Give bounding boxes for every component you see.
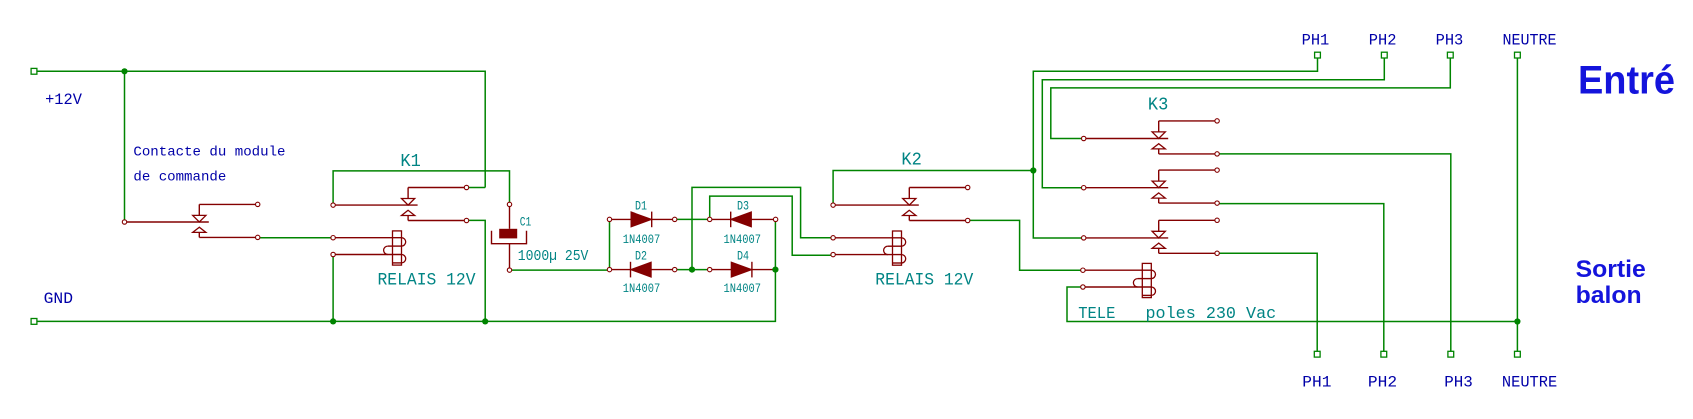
svg-text:D2: D2 — [635, 249, 647, 264]
svg-text:C1: C1 — [520, 215, 532, 230]
svg-text:+12V: +12V — [45, 91, 82, 109]
svg-text:Contacte du module: Contacte du module — [133, 145, 285, 161]
svg-text:PH2: PH2 — [1368, 373, 1397, 391]
svg-text:NEUTRE: NEUTRE — [1503, 31, 1557, 49]
svg-text:de commande: de commande — [133, 170, 226, 186]
svg-text:1N4007: 1N4007 — [724, 232, 762, 247]
svg-text:K2: K2 — [901, 151, 921, 171]
svg-text:K1: K1 — [400, 152, 420, 172]
svg-text:Sortie: Sortie — [1576, 256, 1646, 283]
svg-text:PH1: PH1 — [1302, 373, 1331, 391]
svg-text:PH3: PH3 — [1444, 373, 1473, 391]
svg-text:GND: GND — [44, 290, 73, 308]
svg-text:1N4007: 1N4007 — [623, 232, 661, 247]
svg-text:Entré: Entré — [1578, 59, 1675, 103]
svg-text:D3: D3 — [737, 198, 749, 213]
svg-text:1N4007: 1N4007 — [623, 281, 661, 296]
svg-text:PH1: PH1 — [1302, 31, 1330, 49]
svg-text:NEUTRE: NEUTRE — [1502, 373, 1557, 391]
svg-text:D4: D4 — [737, 249, 749, 264]
svg-text:1N4007: 1N4007 — [724, 281, 762, 296]
svg-text:K3: K3 — [1148, 96, 1168, 116]
svg-text:1000µ 25V: 1000µ 25V — [518, 248, 589, 265]
svg-text:TELE: TELE — [1078, 305, 1115, 324]
svg-text:balon: balon — [1576, 282, 1642, 309]
svg-text:RELAIS 12V: RELAIS 12V — [875, 271, 973, 291]
svg-text:PH3: PH3 — [1436, 31, 1464, 49]
svg-text:poles 230 Vac: poles 230 Vac — [1146, 305, 1277, 324]
svg-text:RELAIS 12V: RELAIS 12V — [378, 271, 476, 291]
svg-text:PH2: PH2 — [1369, 31, 1397, 49]
svg-text:D1: D1 — [635, 198, 647, 213]
